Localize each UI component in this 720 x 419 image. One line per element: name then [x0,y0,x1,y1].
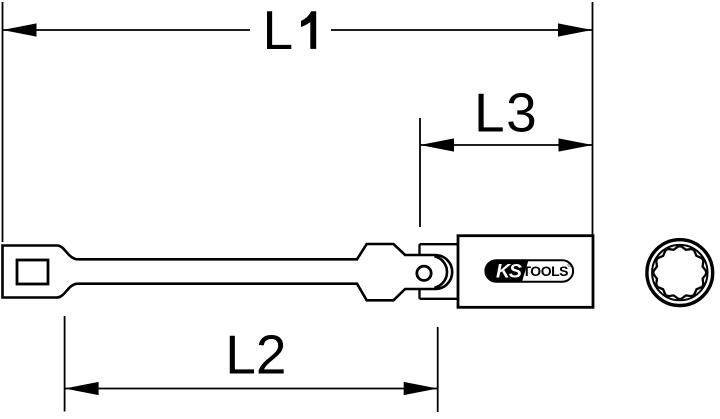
dimension L2 arrow right [404,382,438,395]
joint ball inner crescent arc [434,256,447,288]
dimension L1 line left segment [3,29,251,31]
svg-text:L: L [263,0,294,61]
svg-text:TOOLS: TOOLS [523,263,569,279]
dimension L3 line [420,144,593,146]
dimension L3 extension line left [419,118,421,227]
socket end view outer circle [647,240,713,306]
dimension L2 arrow left [65,382,99,395]
socket fork bracket [420,244,459,299]
logo pill outline [485,260,573,282]
dimension L1 line right segment [331,29,592,31]
joint pivot pin [417,266,431,280]
dimension L1 extension line left [2,2,4,242]
wrench handle, shaft and joint yoke outline [3,244,453,300]
dimension L1 arrow right [558,23,592,36]
svg-text:L2: L2 [225,324,286,386]
svg-text:KS: KS [496,261,522,283]
shared right extension line (L1/L3) [592,2,594,235]
dimension L2 extension line left [64,316,66,412]
square drive hole [17,260,48,284]
dimension L3 arrow right [559,138,593,151]
dimension L2 line [65,388,438,390]
dimension L2 extension line right [437,327,439,412]
socket body [458,236,593,308]
logo black left field [485,260,528,282]
dimension L3 arrow left [420,138,454,151]
socket end view 12-point profile [653,246,706,299]
svg-text:®: ® [568,262,572,269]
socket end view inner circle [652,245,707,300]
dimension L1 arrow left [3,23,37,36]
KS Tools logo [485,260,573,282]
svg-text:L3: L3 [474,81,538,143]
